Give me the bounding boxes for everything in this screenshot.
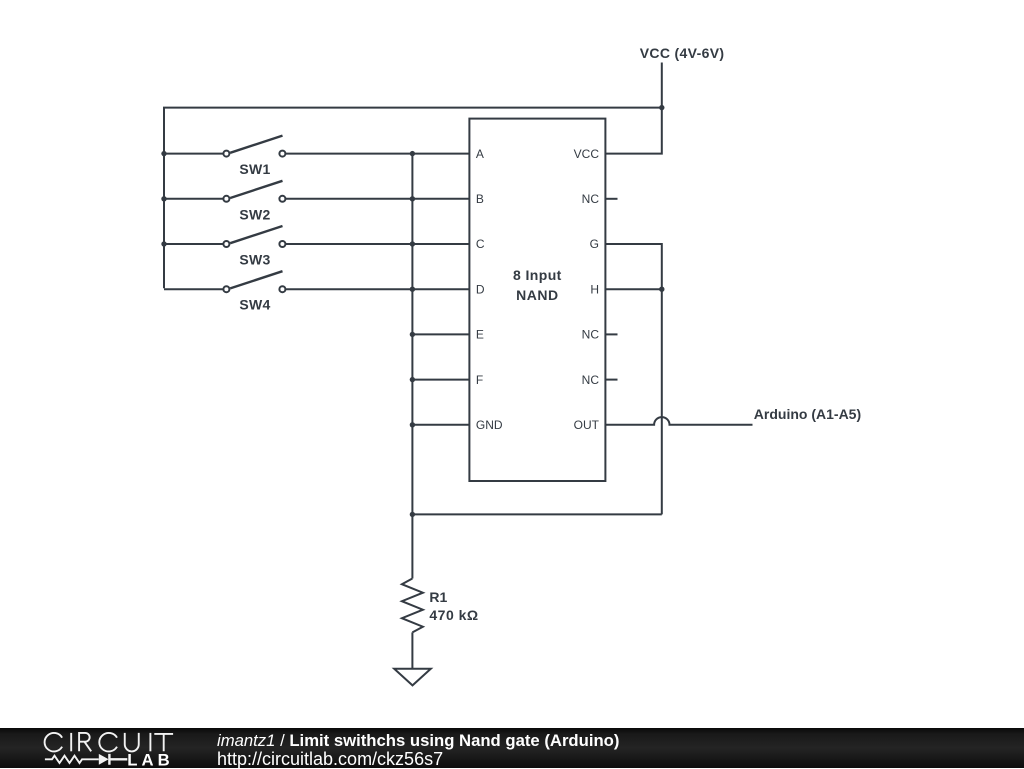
svg-text:LAB: LAB	[127, 752, 174, 768]
svg-text:OUT: OUT	[574, 418, 600, 432]
svg-text:470 kΩ: 470 kΩ	[429, 607, 478, 623]
node middle bus row E	[410, 332, 415, 337]
wire bottom return from right bus to middle bus	[412, 513, 661, 515]
svg-text:NC: NC	[582, 373, 600, 387]
switch SW4	[223, 271, 285, 292]
wire SW4 row right segment to pin D	[285, 288, 469, 290]
logo letter I2	[149, 733, 151, 751]
wire SW3 row right segment to pin C	[285, 243, 469, 245]
svg-text:SW4: SW4	[239, 297, 270, 313]
node left bus SW2	[161, 196, 166, 201]
logo letter C1	[45, 733, 63, 752]
wire pin GND stub from bus	[412, 424, 469, 426]
svg-text:SW3: SW3	[239, 252, 270, 268]
logo letter U	[125, 733, 139, 752]
wire OUT with hop over right bus	[605, 417, 752, 425]
svg-text:GND: GND	[476, 418, 503, 432]
node left bus SW3	[161, 241, 166, 246]
wire R1 bottom lead	[411, 632, 413, 668]
logo resistor zigzag	[45, 756, 99, 763]
svg-text:R1: R1	[429, 589, 447, 605]
svg-text:VCC (4V-6V): VCC (4V-6V)	[640, 45, 725, 61]
wire NC stub pin 6	[605, 379, 617, 381]
svg-text:Arduino (A1-A5): Arduino (A1-A5)	[754, 406, 861, 422]
svg-text:F: F	[476, 373, 483, 387]
svg-text:NAND: NAND	[516, 287, 558, 303]
node H junction	[659, 287, 664, 292]
wire SW2 row left segment	[164, 198, 223, 200]
wire pin H to right bus	[605, 288, 661, 290]
node middle bus row B	[410, 196, 415, 201]
wire pin G to right bus	[605, 244, 661, 514]
logo diode and wire	[109, 754, 127, 765]
svg-text:VCC: VCC	[574, 147, 600, 161]
svg-text:D: D	[476, 282, 485, 296]
node middle bus row D	[410, 287, 415, 292]
wire top horizontal bus from left bus to VCC node	[164, 108, 662, 289]
svg-text:8 Input: 8 Input	[513, 267, 562, 283]
logo letter T	[154, 734, 173, 751]
svg-text:B: B	[476, 192, 484, 206]
svg-text:NC: NC	[582, 192, 600, 206]
footer title line	[217, 733, 619, 750]
wire SW3 row left segment	[164, 243, 223, 245]
node middle bus bottom junction	[410, 512, 415, 517]
svg-text:G: G	[590, 237, 599, 251]
svg-text:SW1: SW1	[239, 161, 270, 177]
wire SW2 row right segment to pin B	[285, 198, 469, 200]
logo letter C2	[99, 733, 117, 752]
node middle bus row C	[410, 241, 415, 246]
node left bus SW1	[161, 151, 166, 156]
wire SW4 row left segment	[164, 288, 223, 290]
svg-text:C: C	[476, 237, 485, 251]
footer url line	[217, 750, 443, 768]
node middle bus row GND	[410, 422, 415, 427]
logo diode triangle	[99, 754, 109, 765]
wire VCC supply drop from label to chip VCC pin	[605, 63, 661, 154]
footer bar	[0, 728, 1024, 768]
resistor R1	[402, 579, 423, 633]
svg-text:NC: NC	[582, 328, 600, 342]
wire R1 top lead	[411, 514, 413, 578]
switch SW2	[223, 181, 285, 202]
logo letter I1	[70, 733, 72, 751]
node middle bus row A	[410, 151, 415, 156]
svg-text:SW2: SW2	[239, 206, 270, 222]
svg-text:H: H	[590, 282, 599, 296]
wire pin E stub from bus	[412, 333, 469, 335]
svg-text:A: A	[476, 147, 484, 161]
svg-text:E: E	[476, 328, 484, 342]
node VCC junction	[659, 105, 664, 110]
wire NC stub pin 2	[605, 198, 617, 200]
wire middle vertical bus	[411, 154, 413, 515]
wire SW1 row right segment to pin A	[285, 153, 469, 155]
op-amp U1 8 Input NAND chip body	[469, 119, 605, 481]
switch SW3	[223, 226, 285, 247]
wire NC stub pin 5	[605, 333, 617, 335]
logo letter R	[79, 733, 91, 751]
wire pin F stub from bus	[412, 379, 469, 381]
node middle bus row F	[410, 377, 415, 382]
ground	[394, 669, 431, 686]
switch SW1	[223, 136, 285, 157]
wire SW1 row left segment	[164, 153, 223, 155]
